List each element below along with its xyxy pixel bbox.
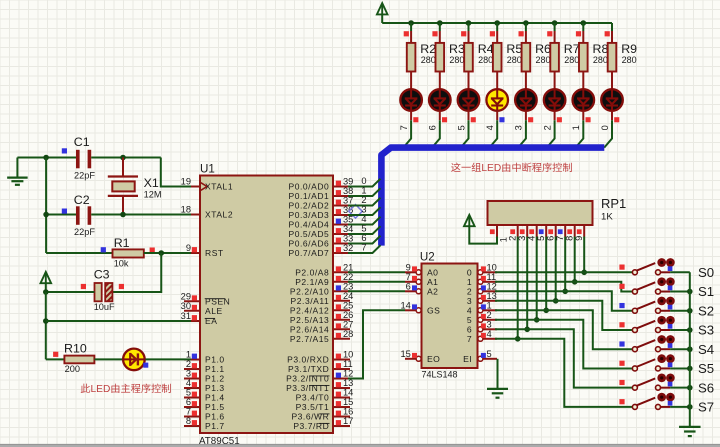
svg-text:27: 27 — [343, 319, 353, 329]
RP1 pin 8 — [574, 225, 576, 237]
wire RP1 pin 2 column — [517, 237, 519, 339]
svg-text:P0.0/AD0: P0.0/AD0 — [289, 182, 330, 192]
wire A0 — [348, 271, 405, 273]
svg-text:R6: R6 — [535, 42, 551, 56]
svg-text:280: 280 — [593, 55, 608, 65]
node rail junction 6 — [552, 20, 558, 26]
svg-text:280: 280 — [622, 55, 637, 65]
U1 pin 24 P2.3/A11 — [333, 300, 350, 302]
U1 pin 9 RST — [184, 252, 200, 254]
U1 pin 33 P0.6/AD6 — [333, 243, 350, 245]
svg-text:1: 1 — [571, 125, 581, 130]
U1 pin 29 PSEN — [184, 300, 200, 302]
RP1 pin 7 — [564, 225, 566, 237]
U1 pin 35 P0.4/AD4 — [333, 224, 350, 226]
switch S3 — [632, 327, 637, 332]
switch S1 — [632, 289, 637, 294]
svg-text:U1: U1 — [200, 163, 215, 176]
svg-text:1: 1 — [186, 350, 191, 360]
svg-text:P1.7: P1.7 — [205, 421, 225, 431]
pin square D1 — [143, 363, 148, 368]
pin square LED D8 — [586, 117, 591, 122]
svg-text:280: 280 — [564, 55, 579, 65]
bus P0 to LEDs — [381, 148, 604, 246]
U1 pin 2 P1.1 — [184, 368, 200, 370]
svg-text:280: 280 — [421, 55, 436, 65]
svg-text:XTAL1: XTAL1 — [205, 182, 233, 192]
svg-text:S4: S4 — [698, 342, 714, 357]
node rail junction 3 — [466, 20, 472, 26]
svg-text:S1: S1 — [698, 284, 714, 299]
svg-text:10k: 10k — [114, 258, 129, 268]
U2 pin 10 0 — [482, 271, 497, 273]
svg-text:33: 33 — [343, 234, 353, 244]
U2 pin 14 GS — [405, 309, 417, 311]
U2 pin 15 EO — [405, 358, 417, 360]
op U1 body — [200, 176, 333, 434]
op U2 body — [422, 264, 478, 369]
svg-text:0: 0 — [600, 125, 610, 130]
svg-text:0: 0 — [467, 267, 472, 277]
pin square LED D2 — [413, 117, 418, 122]
node C2-gnd junction — [43, 212, 49, 218]
U1 pin 3 P1.2 — [184, 378, 200, 380]
U1 pin 31 EA — [184, 320, 200, 322]
wire S7 to rail — [661, 406, 671, 408]
svg-text:280: 280 — [449, 55, 464, 65]
resistor R4 — [464, 43, 473, 72]
pin square R4 top — [461, 31, 466, 36]
pin square S6 — [619, 380, 624, 385]
svg-text:R9: R9 — [621, 42, 637, 56]
power arrow VCC RP1 — [464, 215, 475, 226]
RP1 pin 3 — [526, 225, 528, 237]
U2 pin 5 EI — [482, 358, 497, 360]
U1 pin 26 P2.5/A13 — [333, 319, 350, 321]
U2 pin 9 A0 — [405, 271, 417, 273]
U2 pin 1 4 — [482, 309, 497, 311]
node S7 rail junction — [687, 404, 693, 410]
svg-text:A2: A2 — [427, 286, 438, 296]
U1 pin 7 P1.6 — [184, 416, 200, 418]
svg-text:R2: R2 — [420, 42, 436, 56]
svg-text:4: 4 — [467, 305, 472, 315]
svg-text:280: 280 — [507, 55, 522, 65]
svg-text:16: 16 — [343, 407, 353, 417]
RP1 pin 2 — [517, 225, 519, 237]
wire P0.2 to bus — [348, 198, 381, 206]
wire LED D8 to bus — [582, 111, 584, 121]
svg-text:P1.0: P1.0 — [205, 355, 225, 365]
wire LED D7 to bus — [554, 111, 556, 121]
U1 pin 13 P3.3/INT1 — [333, 387, 350, 389]
wire rail to R2 — [410, 23, 412, 31]
svg-text:2: 2 — [487, 310, 492, 320]
node S2 rail junction — [687, 308, 693, 314]
U1 pin 37 P0.2/AD2 — [333, 205, 350, 207]
svg-text:EA: EA — [205, 316, 217, 326]
svg-text:3: 3 — [361, 204, 366, 214]
wire U2 pin0 to S0 — [495, 271, 632, 273]
wire LED D2 to bus — [410, 111, 412, 121]
node S4 rail junction — [687, 346, 693, 352]
svg-text:280: 280 — [478, 55, 493, 65]
svg-text:5: 5 — [456, 125, 466, 130]
wire RP1 pin 3 column — [526, 237, 528, 330]
node rail junction 4 — [494, 20, 500, 26]
U2 pin 12 2 — [482, 290, 497, 292]
LED D1 yellow — [123, 349, 145, 371]
wire rail to R9 — [611, 23, 613, 31]
wire S0 to rail — [661, 271, 671, 273]
svg-text:P1.1: P1.1 — [205, 364, 225, 374]
wire R4 to LED — [468, 72, 470, 89]
switch S4 — [632, 347, 637, 352]
svg-text:R10: R10 — [64, 341, 87, 355]
wire P0.7 to bus — [348, 245, 381, 253]
svg-text:6: 6 — [406, 281, 411, 291]
svg-text:1: 1 — [487, 300, 492, 310]
svg-text:15: 15 — [400, 349, 410, 359]
svg-text:P2.3/A11: P2.3/A11 — [291, 296, 330, 306]
pin square R1 left — [101, 247, 106, 252]
svg-text:4: 4 — [485, 125, 495, 130]
wire LED D3 to bus — [439, 111, 441, 121]
U1 pin 34 P0.5/AD5 — [333, 233, 350, 235]
svg-text:10: 10 — [487, 262, 497, 272]
svg-text:2: 2 — [361, 195, 366, 205]
LED D7 dark — [544, 89, 566, 111]
U1 pin 17 P3.7/RD — [333, 425, 350, 427]
svg-text:14: 14 — [343, 388, 353, 398]
resistor R1 — [113, 249, 144, 257]
svg-text:P0.3/AD3: P0.3/AD3 — [289, 210, 330, 220]
svg-text:39: 39 — [343, 177, 353, 187]
U1 pin 8 P1.7 — [184, 425, 200, 427]
svg-text:P0.5/AD5: P0.5/AD5 — [289, 229, 330, 239]
U1 pin 32 P0.7/AD7 — [333, 252, 350, 254]
svg-text:3: 3 — [487, 319, 492, 329]
U1 pin 18 XTAL2 — [184, 214, 200, 216]
svg-text:5: 5 — [186, 388, 191, 398]
svg-text:S3: S3 — [698, 323, 714, 338]
wire U2 pin3 to S3 — [495, 301, 632, 330]
svg-text:5: 5 — [487, 349, 492, 359]
svg-text:R8: R8 — [593, 42, 609, 56]
svg-text:S7: S7 — [698, 400, 714, 415]
pin square R8 top — [576, 31, 581, 36]
pin square R9 top — [605, 31, 610, 36]
svg-text:P3.0/RXD: P3.0/RXD — [287, 355, 329, 365]
svg-text:P1.3: P1.3 — [205, 383, 225, 393]
svg-text:26: 26 — [343, 310, 353, 320]
pin square R2 top — [404, 31, 409, 36]
svg-text:10: 10 — [343, 350, 353, 360]
svg-text:1: 1 — [467, 277, 472, 287]
svg-text:2: 2 — [507, 236, 517, 241]
wire P0.0 to bus — [348, 179, 381, 187]
U1 pin 15 P3.5/T1 — [333, 406, 350, 408]
wire S2 to rail — [661, 310, 671, 312]
RP1 pin 9 — [583, 225, 585, 237]
LED D6 dark — [515, 89, 537, 111]
svg-text:13: 13 — [487, 291, 497, 301]
pin square S7 — [619, 399, 624, 404]
svg-text:200: 200 — [65, 364, 80, 374]
svg-text:2: 2 — [542, 125, 552, 130]
pin square R6 top — [519, 31, 524, 36]
svg-text:LED: LED — [91, 384, 111, 395]
svg-text:R3: R3 — [449, 42, 465, 56]
svg-text:3: 3 — [186, 369, 191, 379]
svg-text:EO: EO — [427, 354, 440, 364]
marker diamond — [349, 205, 363, 219]
pin square C1 — [62, 148, 67, 153]
LED D8 dark — [573, 89, 595, 111]
svg-text:P3.1/TXD: P3.1/TXD — [288, 364, 329, 374]
svg-text:EI: EI — [463, 354, 472, 364]
wire switch rail — [689, 272, 691, 426]
svg-text:24: 24 — [343, 291, 353, 301]
resistor R6 — [522, 43, 531, 72]
wire S5 to rail — [661, 367, 671, 369]
svg-text:S6: S6 — [698, 380, 714, 395]
svg-text:4: 4 — [487, 329, 492, 339]
svg-text:22: 22 — [343, 272, 353, 282]
svg-text:XTAL2: XTAL2 — [205, 210, 233, 220]
text note interrupt LEDs — [451, 163, 460, 172]
svg-text:A0: A0 — [427, 267, 438, 277]
wire GS to INT0 — [348, 310, 405, 378]
svg-text:PSEN: PSEN — [205, 296, 230, 306]
resistor R3 — [436, 43, 445, 72]
svg-text:12M: 12M — [144, 189, 162, 199]
svg-text:28: 28 — [343, 329, 353, 339]
wire U2 pin5 to S5 — [495, 320, 632, 369]
wire RP1 pin 8 column — [574, 237, 576, 282]
svg-text:X1: X1 — [144, 176, 159, 190]
svg-text:5: 5 — [467, 315, 472, 325]
node X1 bottom junction — [120, 212, 126, 218]
svg-text:6: 6 — [361, 233, 366, 243]
node S5 rail junction — [687, 366, 693, 372]
capacitor C2 — [76, 206, 80, 225]
svg-text:74LS148: 74LS148 — [422, 370, 458, 380]
wire S6 to rail — [661, 387, 671, 389]
svg-text:P3.5/T1: P3.5/T1 — [296, 402, 330, 412]
LED D2 dark — [400, 89, 422, 111]
RP1 pin 4 — [536, 225, 538, 237]
node power-C3 junction — [43, 289, 49, 295]
svg-text:4: 4 — [186, 378, 191, 388]
wire rail to R8 — [582, 23, 584, 31]
resistor-pack RP1 body — [488, 201, 593, 225]
svg-text:9: 9 — [574, 236, 584, 241]
wire LED D4 to bus — [468, 111, 470, 121]
node RP1 pin 7 junction — [562, 289, 568, 295]
pin square S4 — [619, 341, 624, 346]
U1 pin 39 P0.0/AD0 — [333, 186, 350, 188]
svg-text:1K: 1K — [601, 212, 613, 223]
node RP1 pin 4 junction — [534, 317, 540, 323]
wire RP1 pin 6 column — [555, 237, 557, 301]
ground GND2 under U2 — [487, 388, 508, 390]
wire gnd vertical — [45, 158, 47, 254]
wire rail to R7 — [554, 23, 556, 31]
node power-EA junction — [43, 318, 49, 324]
svg-text:7: 7 — [361, 242, 366, 252]
node RST junction — [158, 250, 164, 256]
svg-text:12: 12 — [487, 281, 497, 291]
LED D5 lit yellow — [486, 89, 508, 111]
U1 pin 21 P2.0/A8 — [333, 271, 350, 273]
wire gnd to R1 — [46, 252, 112, 254]
U1 pin 30 ALE — [184, 310, 200, 312]
svg-text:22pF: 22pF — [74, 227, 95, 237]
svg-text:6: 6 — [467, 324, 472, 334]
ground GND1 top-left — [16, 158, 18, 177]
node X1 top junction — [120, 155, 126, 161]
svg-text:2: 2 — [467, 286, 472, 296]
wire C1 to XTAL1 — [91, 157, 161, 159]
U1 pin 5 P1.4 — [184, 397, 200, 399]
wire U2 pin7 to S7 — [495, 339, 632, 407]
wire rail to R3 — [439, 23, 441, 31]
svg-text:5: 5 — [536, 236, 546, 241]
pin square LED D5 — [499, 117, 504, 122]
pin square R3 top — [432, 31, 437, 36]
svg-text:8: 8 — [564, 236, 574, 241]
pin square LED D9 — [614, 117, 619, 122]
switch S2 — [632, 308, 637, 313]
svg-text:21: 21 — [343, 262, 353, 272]
switch S0 — [632, 270, 637, 275]
wire LED D5 to bus — [496, 111, 498, 121]
pin square S3 — [619, 322, 624, 327]
svg-text:P1.6: P1.6 — [205, 412, 225, 422]
wire rail to R5 — [496, 23, 498, 31]
pin square S5 — [619, 361, 624, 366]
svg-text:15: 15 — [343, 397, 353, 407]
U1 pin 36 P0.3/AD3 — [333, 214, 350, 216]
svg-text:17: 17 — [343, 416, 353, 426]
svg-text:3: 3 — [517, 236, 527, 241]
crystal X1 — [108, 175, 138, 177]
resistor R8 — [579, 43, 588, 72]
RP1 pin 5 — [545, 225, 547, 237]
svg-text:11: 11 — [343, 359, 353, 369]
wire R2 to LED — [410, 72, 412, 89]
wire P0.6 to bus — [348, 236, 381, 244]
svg-text:5: 5 — [361, 223, 366, 233]
node RP1 pin 3 junction — [524, 327, 530, 333]
RP1 pin 6 — [555, 225, 557, 237]
U1 pin 22 P2.1/A9 — [333, 281, 350, 283]
U2 pin 11 1 — [482, 281, 497, 283]
wire power vertical — [45, 292, 47, 359]
svg-text:30: 30 — [181, 301, 191, 311]
svg-text:P3.2/INT0: P3.2/INT0 — [286, 374, 329, 384]
U2 pin 6 A2 — [405, 290, 417, 292]
U1 pin 4 P1.3 — [184, 387, 200, 389]
U1 pin 14 P3.4/T0 — [333, 397, 350, 399]
wire EA — [46, 320, 191, 322]
wire rail to R6 — [525, 23, 527, 31]
svg-text:9: 9 — [186, 243, 191, 253]
svg-text:R4: R4 — [478, 42, 494, 56]
svg-text:3: 3 — [467, 296, 472, 306]
U2 pin 7 A1 — [405, 281, 417, 283]
pin square LED D3 — [442, 117, 447, 122]
node rail junction 5 — [523, 20, 529, 26]
wire C3 to power — [46, 291, 95, 293]
svg-text:18: 18 — [181, 205, 191, 215]
svg-text:12: 12 — [343, 369, 353, 379]
wire RP1 pin 5 column — [545, 237, 547, 311]
wire A1 — [348, 281, 405, 283]
wire RST to C3 — [113, 253, 162, 292]
pin square R10 left — [53, 352, 58, 357]
svg-text:11: 11 — [487, 272, 497, 282]
svg-text:7: 7 — [406, 272, 411, 282]
power arrow VCC top — [377, 3, 388, 14]
U1 pin 10 P3.0/RXD — [333, 359, 350, 361]
svg-text:P3.6/WR: P3.6/WR — [291, 412, 329, 422]
wire R9 to LED — [611, 72, 613, 89]
LED D3 dark — [429, 89, 451, 111]
svg-text:P2.7/A15: P2.7/A15 — [290, 334, 329, 344]
resistor R5 — [493, 43, 502, 72]
LED D4 dark — [458, 89, 480, 111]
svg-text:10uF: 10uF — [94, 302, 115, 312]
wire R1 to RST — [144, 252, 191, 254]
wire X1 top stub — [122, 158, 124, 177]
node RP1 pin 5 junction — [543, 308, 549, 314]
svg-text:P2.2/A10: P2.2/A10 — [290, 286, 329, 296]
svg-text:A1: A1 — [427, 277, 438, 287]
node S1 rail junction — [687, 289, 693, 295]
wire rail to R4 — [468, 23, 470, 31]
svg-text:4: 4 — [361, 214, 366, 224]
pin square C3 left — [81, 284, 86, 289]
wire D1 to P1.0 — [145, 358, 191, 360]
svg-text:ALE: ALE — [205, 306, 223, 316]
wire U2 pin1 to S1 — [495, 282, 632, 292]
svg-text:P0.1/AD1: P0.1/AD1 — [289, 191, 330, 201]
U1 pin 16 P3.6/WR — [333, 416, 350, 418]
svg-text:P2.0/A8: P2.0/A8 — [295, 267, 329, 277]
wire C2 row left — [46, 214, 76, 216]
switch S6 — [632, 385, 637, 390]
svg-text:C2: C2 — [74, 193, 90, 207]
node RP1 pin 2 junction — [515, 336, 521, 342]
svg-text:RST: RST — [205, 248, 224, 258]
wire X1 bottom stub — [122, 196, 124, 215]
pin square R7 top — [547, 31, 552, 36]
U1 pin 23 P2.2/A10 — [333, 290, 350, 292]
svg-text:P1.4: P1.4 — [205, 393, 225, 403]
svg-text:7: 7 — [399, 125, 409, 130]
resistor R7 — [550, 43, 559, 72]
svg-text:U2: U2 — [420, 251, 435, 264]
LED D9 dark — [601, 89, 623, 111]
svg-text:P2.5/A13: P2.5/A13 — [290, 315, 329, 325]
wire U2 pin4 to S4 — [495, 310, 632, 349]
svg-text:7: 7 — [186, 407, 191, 417]
wire S3 to rail — [661, 329, 671, 331]
svg-text:P0.6/AD6: P0.6/AD6 — [289, 239, 330, 249]
wire P0.5 to bus — [348, 226, 381, 234]
